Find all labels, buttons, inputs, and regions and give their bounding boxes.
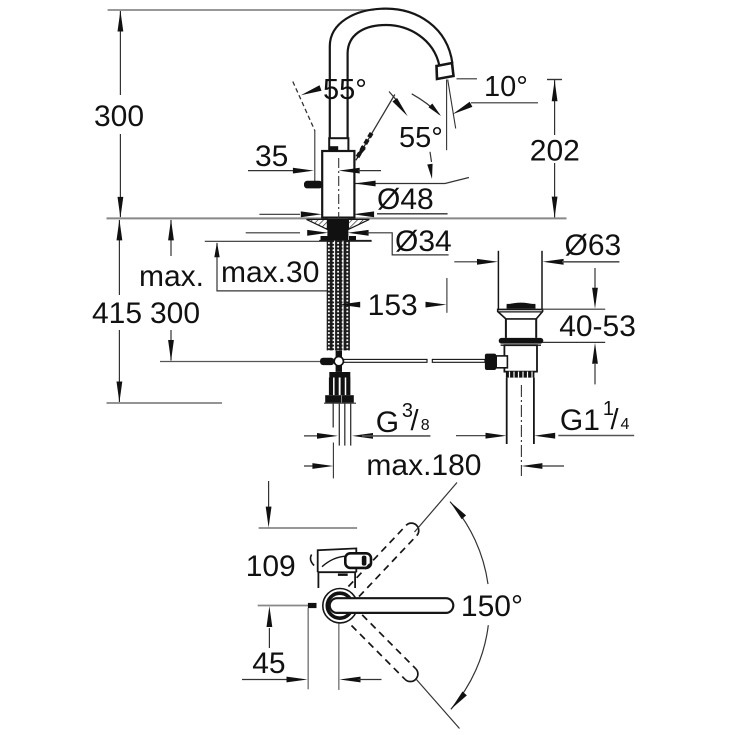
body outer circle <box>323 589 357 623</box>
faucet body <box>322 151 354 218</box>
swivel ray lower <box>416 679 460 729</box>
drain o-ring <box>499 338 544 344</box>
dimension max.180 <box>332 443 334 479</box>
body plan tick <box>338 574 348 576</box>
dashed handle position lower <box>352 615 418 682</box>
drain flange lip line <box>498 311 542 313</box>
hose connector band <box>329 372 350 378</box>
dimension o63 <box>454 261 477 263</box>
svg-text:G1: G1 <box>560 404 600 437</box>
svg-text:415: 415 <box>92 297 142 330</box>
bottom line of 415 dimension <box>107 402 223 404</box>
aerator extension vertical line <box>314 131 316 188</box>
svg-text:55°: 55° <box>323 74 367 106</box>
svg-text:300: 300 <box>94 100 144 133</box>
svg-text:max.30: max.30 <box>221 256 319 289</box>
dimension 202 <box>547 79 562 81</box>
drain flange top band <box>507 303 536 309</box>
svg-text:Ø34: Ø34 <box>395 225 452 258</box>
hose tails <box>333 403 351 445</box>
svg-text:max.180: max.180 <box>366 449 481 482</box>
dimension 300 (top left) <box>119 11 121 217</box>
handle axis line <box>258 605 308 607</box>
svg-text:153: 153 <box>368 289 418 322</box>
svg-text:10°: 10° <box>484 71 528 103</box>
svg-text:max.: max. <box>139 260 204 293</box>
body plan outline <box>318 548 357 572</box>
dimension G1 1/4 <box>456 435 487 437</box>
rod cross ticks <box>336 351 342 358</box>
escutcheon hatched left <box>307 219 328 229</box>
rod pivot circle <box>334 357 343 366</box>
outlet level short line <box>457 78 478 80</box>
svg-text:300: 300 <box>150 297 200 330</box>
svg-text:Ø63: Ø63 <box>565 229 622 262</box>
body centerline <box>338 158 340 218</box>
flat angular line (lever reference) with left arrow <box>354 178 469 184</box>
drain flange <box>498 309 543 319</box>
hose nuts <box>325 395 341 403</box>
drain body <box>504 345 537 371</box>
drain rod connector white box <box>496 356 507 368</box>
lever knob plan <box>345 553 371 568</box>
150 deg arc <box>450 502 488 584</box>
svg-text:8: 8 <box>421 417 430 434</box>
svg-text:202: 202 <box>530 135 580 168</box>
55 deg (first) arrow on dashed line <box>300 85 322 98</box>
top reference line <box>108 9 374 11</box>
svg-text:45: 45 <box>252 647 285 680</box>
handle capsule <box>330 598 454 613</box>
lever closed position line <box>356 95 395 161</box>
rod knob <box>320 358 334 365</box>
dimension o34 <box>246 232 300 234</box>
dimension 40-53 <box>542 308 606 310</box>
svg-text:Ø48: Ø48 <box>377 183 434 216</box>
lever hatching <box>358 132 373 158</box>
spout outer curve <box>330 9 453 140</box>
stream line 10 deg <box>448 80 456 129</box>
dimension 153 <box>339 302 360 308</box>
svg-text:40-53: 40-53 <box>559 310 636 343</box>
109 top line <box>259 527 358 529</box>
lever knob end bar <box>362 556 367 566</box>
body inner ring <box>327 593 352 618</box>
threaded shank <box>327 241 350 351</box>
hose bottom line <box>324 402 356 404</box>
svg-text:35: 35 <box>255 140 288 173</box>
swivel ray upper <box>415 483 458 533</box>
svg-text:4: 4 <box>621 416 630 433</box>
55 deg (first) right arrow with short line <box>389 92 398 102</box>
pop-up rod left line <box>160 361 320 363</box>
pop-up rod to drain <box>344 359 427 362</box>
nut blocks <box>321 236 328 241</box>
dimension G3/8 <box>304 435 327 437</box>
spout inner curve <box>348 25 440 140</box>
45 right extension <box>338 621 340 690</box>
dimension 415 (left, below deck) <box>118 220 120 402</box>
body top black tab <box>329 146 338 151</box>
aerator <box>304 181 322 189</box>
shank core through deck <box>327 219 348 241</box>
dimension o48 at deck <box>259 213 300 215</box>
countertop deck line <box>107 217 567 219</box>
drain thread band <box>506 372 535 378</box>
45 left extension <box>307 608 309 689</box>
109 dimension <box>268 481 270 512</box>
lever open position dashed line <box>293 82 315 132</box>
hose connectors <box>329 378 339 396</box>
55 deg (second) down arrow to flat arc <box>430 152 432 162</box>
drain pipe <box>498 251 542 310</box>
dimension max.30 <box>205 240 372 242</box>
svg-text:109: 109 <box>246 550 296 583</box>
dimension max.300 (left, below deck) <box>170 220 172 361</box>
svg-text:150°: 150° <box>461 590 523 623</box>
drain upper body <box>506 319 536 338</box>
svg-text:/: / <box>411 405 420 437</box>
svg-text:/: / <box>611 404 620 436</box>
drain centerline <box>520 385 522 476</box>
dashed handle position upper <box>348 523 418 596</box>
svg-text:55°: 55° <box>399 122 443 154</box>
outlet vertical extension (153) <box>446 278 448 313</box>
body plan left arc <box>310 555 314 566</box>
55 deg (second) arc arrow toward vertical line <box>412 94 440 115</box>
lever tip silhouette <box>308 603 317 608</box>
body plan inner arc <box>322 556 345 567</box>
drain rod connector black block <box>485 354 496 370</box>
svg-text:G: G <box>376 406 399 439</box>
escutcheon bottom nut line <box>319 240 371 242</box>
drain tailpipe <box>507 378 534 444</box>
escutcheon hatched right <box>348 219 369 229</box>
nozzle <box>437 63 454 79</box>
faucet neck <box>329 138 348 151</box>
outlet vertical reference line <box>446 80 448 151</box>
